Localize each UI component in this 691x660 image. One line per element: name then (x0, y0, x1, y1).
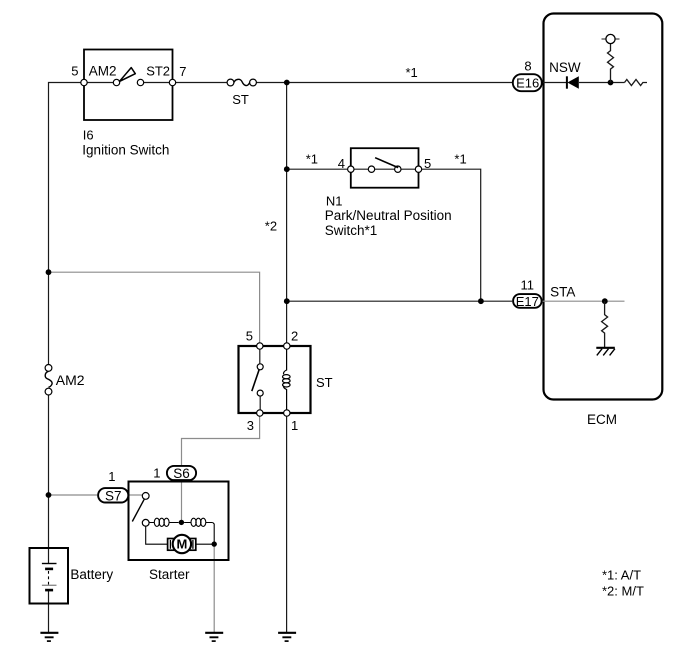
junction: starter coil node (179, 520, 184, 525)
ignition switch I6 box (71, 50, 186, 158)
svg-text:NSW: NSW (549, 60, 581, 75)
fuse AM2 (45, 365, 85, 396)
junction: top wire / relay net (284, 80, 290, 86)
ignition switch pin 7 (169, 79, 175, 85)
starter relay ST box (239, 329, 333, 434)
svg-text:Ignition Switch: Ignition Switch (82, 142, 169, 157)
svg-text:1: 1 (153, 466, 160, 481)
svg-text:Starter: Starter (149, 567, 190, 582)
svg-text:N1: N1 (326, 194, 343, 209)
svg-text:S7: S7 (105, 488, 122, 503)
junction: trunk / relay pin5 branch (46, 269, 52, 275)
wire: ignition pin7 to fuse ST (176, 82, 227, 84)
relay switch upper contact (257, 364, 263, 370)
ECM box U1 (544, 14, 663, 428)
ground: relay pin1 (278, 633, 296, 641)
svg-text:S6: S6 (173, 466, 190, 481)
series resistor (horizontal) (625, 80, 648, 86)
svg-text:8: 8 (524, 59, 531, 74)
svg-text:*2: *2 (265, 219, 277, 234)
ignition switch movable contact (113, 79, 119, 85)
relay pin 5 (257, 343, 263, 349)
starter hold-in coil (149, 518, 179, 526)
svg-text:ST2: ST2 (146, 64, 170, 79)
ignition switch lever (120, 68, 136, 82)
wire: left trunk lower segment below fuse AM2 to battery plate (48, 395, 50, 564)
svg-text:Park/Neutral Position: Park/Neutral Position (325, 208, 452, 223)
svg-text:7: 7 (179, 64, 186, 79)
svg-text:M: M (176, 537, 187, 552)
svg-text:5: 5 (246, 329, 253, 344)
svg-text:*1: *1 (454, 152, 466, 167)
ignition switch pin 5 (81, 79, 87, 85)
svg-text:5: 5 (424, 156, 431, 171)
connector S6 pin 1 (153, 466, 196, 482)
junction: N1 branch (284, 166, 290, 172)
junction: diode node (608, 80, 614, 86)
svg-text:*1: *1 (306, 152, 318, 167)
ignition switch fixed contact (137, 79, 143, 85)
ground: starter motor (205, 633, 223, 641)
pulldown resistor STA (602, 301, 608, 347)
svg-text:E17: E17 (516, 294, 539, 309)
ignition switch contact line pin5 to movable (87, 82, 113, 84)
wire: starter motor right to ground (213, 544, 215, 632)
diode D1 (cathode bar left) (567, 76, 579, 89)
starter switch lever (132, 499, 144, 522)
N1 inner contact right (395, 166, 401, 172)
ignition switch contact line to pin7 (144, 82, 170, 84)
wire: battery minus to ground (48, 590, 50, 633)
junction: STA net at relay column (284, 298, 290, 304)
N1 inner contact left (368, 166, 374, 172)
svg-text:1: 1 (291, 418, 298, 433)
starter pull-in coil (184, 518, 213, 526)
relay switch lower contact (257, 390, 263, 396)
wire: fuse ST to ECM E16 (256, 82, 512, 84)
wire: coil to motor right (213, 523, 215, 545)
svg-text:3: 3 (247, 418, 254, 433)
svg-text:11: 11 (521, 278, 535, 293)
svg-text:ECM: ECM (587, 412, 617, 427)
connector S7 pin 1 (98, 469, 128, 503)
ground: battery (40, 633, 58, 641)
relay switch stubs (259, 349, 261, 410)
N1 labels (325, 194, 452, 238)
svg-text:*2: M/T: *2: M/T (602, 584, 644, 599)
pull-up resistor (vertical) (608, 44, 614, 83)
wire: STA horizontal to E17 (287, 300, 513, 302)
svg-text:Switch*1: Switch*1 (325, 223, 378, 238)
ECM internal ground (hatched) (596, 348, 615, 356)
connector E16 pin 8 (513, 59, 542, 92)
svg-text:I6: I6 (83, 127, 94, 142)
junction: trunk / S7 branch (46, 492, 52, 498)
svg-text:ST: ST (316, 375, 333, 390)
svg-text:Battery: Battery (70, 567, 113, 582)
wire: S6 down into starter (181, 481, 183, 522)
svg-text:*1: A/T: *1: A/T (602, 568, 641, 583)
battery (30, 548, 114, 604)
wire: coil contact to motor left (146, 526, 168, 544)
svg-text:2: 2 (291, 329, 298, 344)
starter switch contact (142, 493, 149, 500)
junction: STA net at N1 column (478, 298, 484, 304)
junction: STA pulldown node (602, 298, 608, 304)
svg-text:1: 1 (108, 469, 115, 484)
power supply circle B+ (602, 38, 620, 40)
wire: ignition pin5 to left trunk down to battery (upper segment) (49, 83, 85, 365)
connector E17 pin 11 (513, 278, 542, 310)
wire: S7 to starter contact (129, 494, 142, 496)
wire: vertical net x=286.6 from top wire to relay pin2 (286, 83, 288, 347)
svg-text:E16: E16 (516, 76, 539, 91)
relay pin 3 (257, 410, 263, 416)
svg-text:4: 4 (338, 156, 345, 171)
starter box (129, 482, 229, 582)
fuse ST (227, 79, 256, 107)
relay pin 2 (284, 343, 290, 349)
N1 pin 5 (415, 166, 421, 172)
wire: N1 pin5 right and down to STA net (422, 169, 481, 301)
relay pin 1 (284, 410, 290, 416)
svg-text:5: 5 (71, 64, 78, 79)
relay coil (283, 349, 291, 410)
N1 contact line (354, 168, 415, 170)
park/neutral position switch N1 box (338, 148, 431, 188)
svg-text:*1: *1 (406, 65, 418, 80)
wire: relay pin3 to S6 (182, 413, 260, 465)
starter motor M (168, 535, 196, 553)
wire: branch to N1 pin4 (287, 168, 348, 170)
starter coil input contact (142, 519, 149, 526)
wire: relay pin1 to ground (286, 413, 288, 633)
svg-text:STA: STA (550, 285, 575, 300)
svg-text:ST: ST (232, 92, 249, 107)
N1 lever (375, 158, 398, 168)
svg-text:AM2: AM2 (56, 372, 85, 388)
wire: E17 inside ECM to pulldown (543, 300, 625, 302)
wire: motor right to junction (196, 543, 214, 545)
wire: trunk branch to relay pin5 (49, 272, 260, 346)
wire: E16 into ECM to diode (543, 82, 625, 84)
junction: motor right node (212, 541, 217, 546)
svg-text:AM2: AM2 (89, 64, 117, 79)
wire: trunk branch to S7 (49, 494, 98, 496)
relay switch lever (252, 370, 259, 391)
N1 pin 4 (348, 166, 354, 172)
